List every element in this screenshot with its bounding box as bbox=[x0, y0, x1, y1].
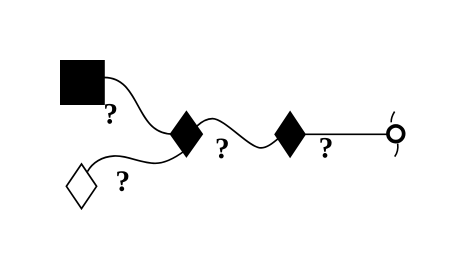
reducing end circle bbox=[388, 126, 404, 142]
reducing end squiggle lower bbox=[395, 144, 398, 157]
label ? linkage 3 bbox=[217, 138, 228, 158]
reducing end squiggle upper bbox=[391, 112, 394, 123]
filled square (GalNAc) bbox=[60, 60, 105, 105]
filled diamond D2 (NeuAc) bbox=[275, 111, 306, 157]
filled diamond D1 (NeuAc) bbox=[170, 111, 202, 157]
wire diamond D2 to reducing end bbox=[305, 133, 388, 135]
label ? linkage 2 bbox=[117, 171, 128, 191]
open diamond (unknown) bbox=[66, 164, 96, 209]
wire diamond D1 to diamond D2 bbox=[197, 119, 280, 148]
wire square to diamond D1 bbox=[105, 78, 173, 135]
label ? linkage 1 bbox=[105, 104, 116, 124]
label ? linkage 4 bbox=[320, 138, 331, 158]
wire open diamond to diamond D1 bbox=[88, 151, 186, 172]
